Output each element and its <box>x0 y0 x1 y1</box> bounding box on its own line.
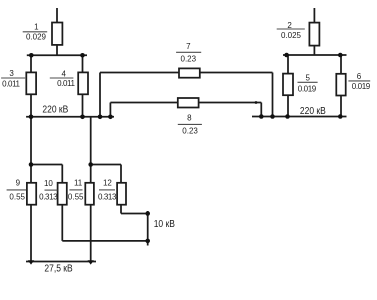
svg-text:0.55: 0.55 <box>68 192 84 201</box>
wire: node B horizontal branch to R12 <box>91 164 121 166</box>
junction dot 10kV top <box>145 211 150 216</box>
resistor 2 <box>309 23 319 46</box>
fraction bar label 7 <box>176 51 201 53</box>
resistor 1 <box>52 23 62 45</box>
resistor 10 <box>58 183 67 205</box>
resistor 6 <box>336 74 345 96</box>
junction dot right 220kV bus line8 <box>259 114 264 119</box>
svg-text:0.011: 0.011 <box>2 79 20 88</box>
fraction bar label 9 <box>7 189 27 191</box>
svg-text:8: 8 <box>187 113 192 122</box>
wire: left 220kV bus <box>26 116 114 118</box>
wire: resistor 1 branch from supply down to left 220kV upper bus <box>56 8 58 55</box>
fraction bar label 1 <box>23 31 48 33</box>
svg-text:0.029: 0.029 <box>26 33 47 42</box>
junction dot upper-right bus left <box>284 53 289 58</box>
wire: R7 right drop to right 220kV bus <box>272 73 274 117</box>
junction dot upper-right bus right <box>338 53 343 58</box>
wire: branch through R3, R9 down to 27.5kV bus <box>30 55 32 261</box>
junction dot 10kV bottom <box>145 239 150 244</box>
wire: branch through R6 <box>340 55 342 117</box>
fraction bar label 12 <box>99 189 115 191</box>
fraction bar label 5 <box>298 81 318 83</box>
wire: upper-left bus <box>27 54 87 56</box>
wire: branch through R5 <box>287 55 289 117</box>
resistor 4 <box>78 72 88 94</box>
wire: R8 left drop to left 220kV bus <box>109 103 111 117</box>
load arrow 27.5kV bus right <box>88 260 94 264</box>
wire: R10 bottom to 10kV node <box>62 240 147 242</box>
junction dot left 220kV bus R4 <box>80 115 85 120</box>
wire: line through R7 <box>100 72 273 74</box>
junction dot node B <box>88 162 93 167</box>
wire: upper-right bus <box>283 54 347 56</box>
wire: line through R8 <box>110 102 261 104</box>
wire: 10kV node vertical <box>147 211 149 246</box>
svg-text:3: 3 <box>9 69 14 78</box>
svg-text:0.025: 0.025 <box>281 31 302 40</box>
junction dot left 220kV bus line7 <box>98 115 103 120</box>
fraction bar label 6 <box>348 80 370 82</box>
speck on line 8 <box>255 101 258 104</box>
fraction bar label 4 <box>50 77 74 79</box>
svg-text:12: 12 <box>103 179 112 188</box>
svg-text:4: 4 <box>61 69 66 78</box>
svg-text:10: 10 <box>44 179 53 188</box>
wire: R12 branch down <box>120 165 122 214</box>
svg-text:220 кВ: 220 кВ <box>42 104 68 115</box>
svg-text:0.23: 0.23 <box>182 126 198 135</box>
resistor 7 <box>179 68 200 77</box>
junction dot right 220kV bus line7 <box>270 114 275 119</box>
junction dot node A <box>29 162 34 167</box>
wire: node A horizontal branch to R10 <box>31 164 62 166</box>
wire: 27.5kV bus <box>26 261 96 263</box>
svg-text:11: 11 <box>74 179 83 188</box>
wire: R8 right drop to right 220kV bus <box>260 103 262 117</box>
svg-text:0.011: 0.011 <box>57 79 75 88</box>
svg-text:10 кВ: 10 кВ <box>154 218 175 229</box>
junction dot right 220kV bus R6 <box>338 114 343 119</box>
fraction bar label 11 <box>69 189 82 191</box>
svg-text:7: 7 <box>186 42 191 51</box>
svg-text:0.23: 0.23 <box>181 55 197 64</box>
svg-text:0.019: 0.019 <box>298 84 317 93</box>
wire: R12 bottom to 10kV node <box>121 213 148 215</box>
wire: resistor 2 branch from supply down to right 220kV upper bus <box>313 8 315 55</box>
svg-text:5: 5 <box>305 74 310 83</box>
wire: branch through R4 <box>82 55 84 117</box>
load arrow 27.5kV bus left <box>28 260 34 264</box>
resistor 9 <box>27 183 36 205</box>
wire: branch through R11 down to 27.5kV bus <box>90 117 92 262</box>
svg-text:0.313: 0.313 <box>39 192 58 201</box>
fraction bar label 10 <box>45 189 58 191</box>
junction dot upper-left bus right <box>80 53 85 58</box>
fraction bar label 8 <box>178 123 202 125</box>
fraction bar label 2 <box>277 28 305 30</box>
svg-text:27,5 кВ: 27,5 кВ <box>44 263 72 274</box>
svg-text:6: 6 <box>357 72 362 81</box>
junction dot upper-left bus left <box>29 53 34 58</box>
svg-text:9: 9 <box>16 179 21 188</box>
svg-text:2: 2 <box>287 21 292 30</box>
resistor 11 <box>85 183 94 205</box>
svg-text:0.313: 0.313 <box>98 192 117 201</box>
junction dot left 220kV bus R3 <box>29 115 34 120</box>
svg-text:0.019: 0.019 <box>352 82 371 91</box>
resistor 5 <box>283 74 293 96</box>
resistor 8 <box>178 98 199 108</box>
wire: R10 branch down <box>61 165 63 241</box>
resistor 3 <box>26 72 36 94</box>
fraction bar label 3 <box>1 77 25 79</box>
wire: R7 left drop to left 220kV bus <box>99 73 101 117</box>
wire: right 220kV bus <box>252 116 347 118</box>
junction dot left 220kV bus line8 <box>108 115 113 120</box>
svg-text:0.55: 0.55 <box>9 192 25 201</box>
resistor 12 <box>117 183 126 205</box>
junction dot right 220kV bus R5 <box>285 114 290 119</box>
svg-text:220 кВ: 220 кВ <box>300 105 326 116</box>
svg-text:1: 1 <box>34 23 39 32</box>
